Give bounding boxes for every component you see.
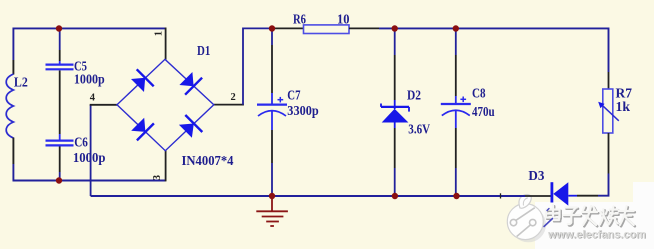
svg-text:www.elecfans.com: www.elecfans.com <box>547 229 646 241</box>
wire top rail left <box>13 27 166 29</box>
potentiometer R7 <box>598 89 619 133</box>
wire D2 branch top <box>394 28 396 55</box>
svg-text:L2: L2 <box>14 74 28 89</box>
junction dot C8 top <box>453 25 459 31</box>
wire C5/C6 column navy top <box>59 28 61 50</box>
bridge diode top-left <box>131 69 154 92</box>
bridge diode top-right <box>179 72 202 95</box>
junction dot rail A <box>56 177 62 183</box>
wire D2 pin bottom (black) <box>394 128 396 168</box>
wire node2 riser <box>243 28 272 104</box>
wire D3 pin right (black) <box>577 195 598 197</box>
bridge diode bottom-right <box>179 115 202 138</box>
wire R6 right lead (black) <box>349 27 379 29</box>
svg-text:4: 4 <box>90 92 96 103</box>
wire C7 pin top (black) <box>271 45 273 93</box>
capacitor C6 <box>46 134 74 145</box>
resistor R6 <box>304 25 350 34</box>
wire rail B bottom <box>91 195 525 197</box>
wire top rail right <box>379 28 609 72</box>
svg-text:D1: D1 <box>197 43 211 58</box>
wire L2 left vertical top <box>12 28 14 61</box>
wire C8 branch bottom <box>455 168 457 196</box>
wire C8 branch top <box>455 28 457 55</box>
wire L2 pin top (black) <box>12 60 14 75</box>
svg-text:C8: C8 <box>472 86 486 101</box>
junction dot D2 bottom <box>392 193 398 199</box>
svg-text:C6: C6 <box>74 135 88 150</box>
junction dot C7 top <box>269 25 275 31</box>
wire C8 pin top (black) <box>455 55 457 96</box>
svg-text:D3: D3 <box>528 168 544 183</box>
wire R7 pin top (black) <box>608 72 610 89</box>
junction dot D2 top <box>392 25 398 31</box>
junction dot C8 bottom <box>453 193 459 199</box>
svg-text:C7: C7 <box>287 88 300 103</box>
wire D2 branch bottom <box>394 168 396 196</box>
junction dot C7 bottom <box>269 193 275 199</box>
wire bridge pin 2 (black) <box>214 104 244 106</box>
wire R7 bottom riser <box>598 174 609 196</box>
ground symbol <box>256 196 288 226</box>
svg-text:1: 1 <box>153 31 164 36</box>
wire rail A (lower-left rail) <box>13 180 166 182</box>
junction dot top-left <box>56 25 62 31</box>
svg-text:470u: 470u <box>472 104 495 119</box>
diode D3 <box>552 182 577 205</box>
wire R6 left lead (black) <box>272 27 304 29</box>
wire D2 pin top (black) <box>394 55 396 100</box>
svg-text:2: 2 <box>231 92 236 103</box>
wire L2 bottom to rail A <box>12 164 14 181</box>
watermark chinese characters (drawn strokes) <box>544 205 635 227</box>
wire C7 branch bottom <box>271 163 273 196</box>
wire D3 pin left (black) <box>525 195 551 197</box>
svg-text:R6: R6 <box>293 12 306 27</box>
svg-text:1k: 1k <box>616 99 631 114</box>
svg-text:D2: D2 <box>407 88 421 103</box>
wire bridge pin 4 (black) <box>90 104 117 106</box>
svg-text:1000p: 1000p <box>74 72 105 87</box>
wire node 4 vertical <box>90 105 92 196</box>
wire bridge pin 1 (black) <box>165 28 167 60</box>
wire C6 pin bottom (black) <box>59 147 61 173</box>
bridge diode bottom-left <box>131 118 154 141</box>
svg-text:3.6V: 3.6V <box>408 121 430 136</box>
wire C5 pin top (black) <box>59 50 61 61</box>
capacitor C7 <box>257 93 287 130</box>
wire C6 bottom to rail A <box>59 172 61 181</box>
wire L2 pin bottom (black) <box>12 138 14 165</box>
watermark white panel <box>535 202 654 249</box>
inductor L2 <box>6 74 13 138</box>
svg-text:3300p: 3300p <box>287 103 318 118</box>
svg-text:10: 10 <box>337 12 350 27</box>
capacitor C8 <box>441 96 471 128</box>
svg-text:IN4007*4: IN4007*4 <box>182 153 234 168</box>
watermark logo circle <box>507 194 546 242</box>
capacitor C5 <box>46 61 74 69</box>
wire bridge pin 3 (black) <box>165 151 167 182</box>
svg-text:3: 3 <box>152 175 163 180</box>
zener diode D2 <box>381 100 409 128</box>
wire D3 pin end tick <box>500 193 502 198</box>
wire C7 pin bottom (black) <box>271 130 273 163</box>
wire C8 pin bottom (black) <box>455 128 457 168</box>
wire R7 pin bottom (black) <box>608 133 610 174</box>
wire C7 branch top <box>271 28 273 45</box>
wire between C5 and C6 (black pin) <box>59 71 61 135</box>
svg-text:1000p: 1000p <box>73 150 106 165</box>
bridge D1 diamond edges <box>117 59 214 150</box>
